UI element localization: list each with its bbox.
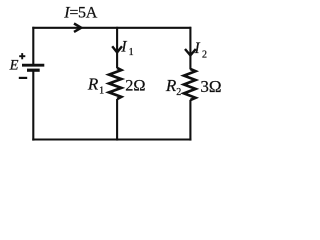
svg-text:2Ω: 2Ω [125, 76, 145, 95]
svg-text:R: R [165, 76, 177, 95]
svg-text:2: 2 [202, 49, 207, 60]
battery E negative plate [27, 69, 40, 72]
resistor R1 zigzag [109, 68, 121, 99]
wire middle lower [116, 99, 118, 141]
svg-text:1: 1 [129, 47, 134, 58]
wire bottom [32, 138, 191, 140]
svg-text:3Ω: 3Ω [200, 77, 221, 96]
battery minus sign [19, 77, 27, 79]
wire middle upper [116, 27, 118, 68]
wire right lower [189, 100, 191, 141]
svg-text:I: I [194, 40, 201, 57]
svg-text:E: E [9, 58, 19, 74]
svg-text:1: 1 [99, 86, 104, 97]
wire right upper [189, 27, 191, 70]
svg-text:I: I [120, 39, 127, 56]
current arrow I on top wire [74, 24, 81, 32]
battery plus sign [19, 53, 25, 59]
wire top [32, 27, 191, 29]
svg-text:I=5A: I=5A [63, 5, 97, 22]
wire left upper [32, 27, 34, 64]
svg-text:R: R [87, 75, 99, 94]
wire left lower [32, 70, 34, 140]
svg-text:2: 2 [176, 87, 181, 98]
battery E positive plate [22, 64, 44, 67]
current arrow I2 on right branch [185, 49, 196, 55]
current arrow I1 on middle branch [112, 46, 122, 52]
resistor R2 zigzag [184, 69, 196, 100]
